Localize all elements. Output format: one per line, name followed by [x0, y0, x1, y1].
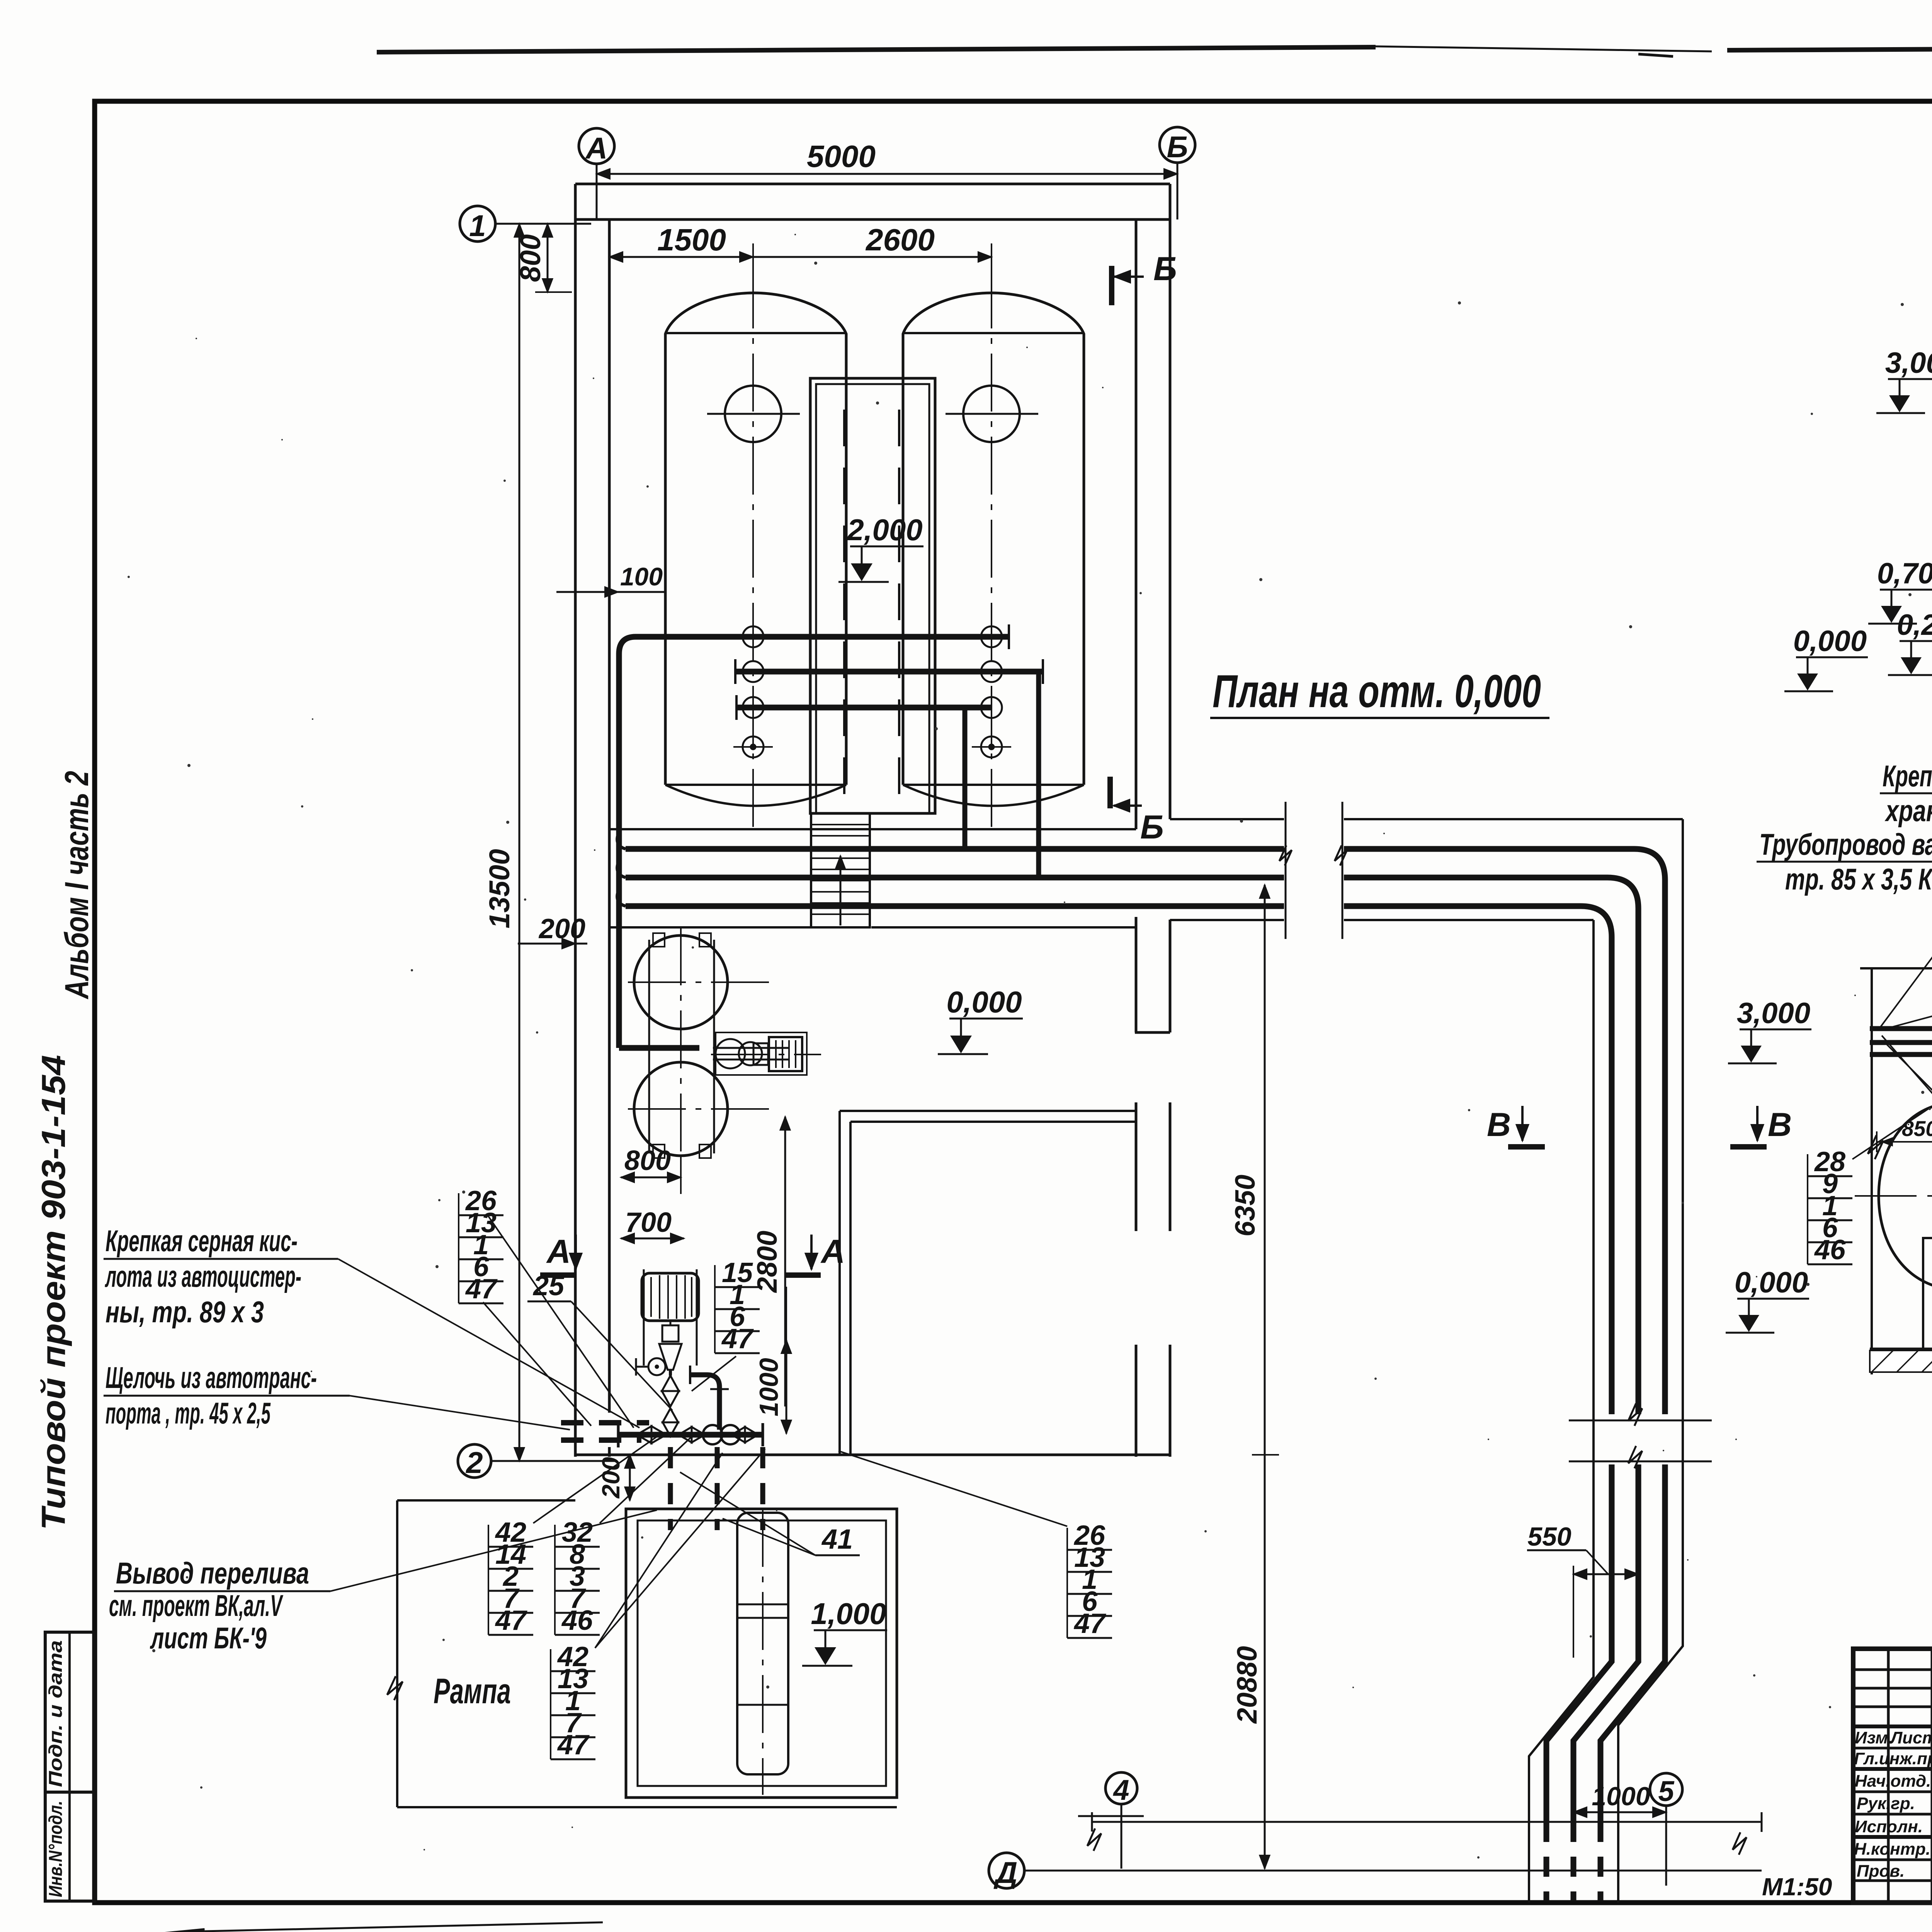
svg-text:2800: 2800 [752, 1231, 783, 1293]
mernik valve actuator [662, 1325, 679, 1342]
svg-text:А: А [820, 1233, 845, 1270]
horizontal tank body [1879, 1105, 1932, 1286]
grid circle B [1160, 127, 1195, 163]
corridor pipe 2 (middle) [626, 875, 1284, 881]
scan top edge line [377, 47, 1376, 52]
interior room wall top double [840, 1110, 1136, 1112]
svg-text:47: 47 [721, 1323, 754, 1354]
tank 2 bottom [903, 784, 1084, 786]
middle pit inner [816, 384, 929, 813]
scan bottom-left streak [37, 1931, 205, 1932]
svg-text:0,000: 0,000 [946, 985, 1022, 1019]
truck centerline [762, 1509, 764, 1795]
elevation mark BB 0.000 left [1726, 1266, 1809, 1333]
tank 2 centerline [991, 270, 992, 829]
truck compartment lines [737, 1604, 788, 1605]
dissolver centerline vertical [680, 927, 682, 1163]
label vacuum pipe [1759, 827, 1932, 896]
dim 6350 and 20880 [1264, 885, 1266, 1869]
dim 550 [1573, 1573, 1638, 1575]
corridor pipe 1 (top) [626, 846, 1284, 852]
svg-text:В: В [1768, 1106, 1792, 1143]
pump centerline [711, 1054, 821, 1055]
motor coupling [753, 1043, 768, 1065]
svg-text:20880: 20880 [1232, 1646, 1263, 1724]
svg-text:700: 700 [625, 1207, 672, 1238]
svg-text:200: 200 [538, 913, 585, 944]
outside duct upper boundary [1170, 818, 1284, 820]
svg-text:А: А [585, 131, 607, 165]
tank 1 centerline [752, 270, 754, 829]
dim 2600 [753, 256, 992, 258]
svg-text:Пров.: Пров. [1857, 1862, 1905, 1881]
corridor pipe 3 (bottom) [626, 903, 1284, 909]
column lines [1887, 1649, 1890, 1903]
tank top pipe 3 [736, 705, 992, 711]
svg-text:Б: Б [1153, 250, 1177, 287]
ramp platform bottom edge [397, 1806, 897, 1808]
svg-text:46: 46 [561, 1605, 593, 1636]
callout stack 42-13-1-7-47 [551, 1641, 595, 1760]
ramp pit inner [638, 1520, 886, 1786]
svg-text:Д: Д [993, 1855, 1017, 1889]
elevation mark BB 3.000 left [1728, 997, 1811, 1063]
svg-text:1000: 1000 [754, 1358, 784, 1416]
duct right boundary vertical with offset [1618, 819, 1683, 1903]
dim 5000 [597, 173, 1177, 175]
main unloading manifold [618, 1432, 763, 1438]
section box left [1871, 968, 1873, 1374]
outside duct lower boundary [1170, 919, 1284, 921]
ground line [1870, 1348, 1932, 1350]
pipe corridor wall lower [609, 926, 810, 929]
dissolver centerline horizontal 2 [628, 1108, 769, 1110]
dim 1500 [609, 256, 753, 258]
svg-text:47: 47 [557, 1730, 590, 1760]
pipe end hooks at left [617, 835, 626, 849]
svg-text:Альбом I часть 2: Альбом I часть 2 [58, 771, 95, 1000]
svg-text:Гл.инж.пр: Гл.инж.пр [1854, 1749, 1932, 1768]
grid circle 2 [458, 1444, 491, 1478]
svg-text:5000: 5000 [807, 139, 876, 173]
manifold valves [637, 1426, 666, 1443]
svg-text:0,000: 0,000 [1735, 1266, 1808, 1299]
vertical run break marks [1569, 1420, 1712, 1422]
stair treads [811, 825, 870, 914]
ramp pit outer [626, 1509, 897, 1798]
tank 2 manhole [963, 386, 1020, 442]
svg-text:см. проект ВК,ал.V: см. проект ВК,ал.V [109, 1588, 284, 1622]
elevation mark AA 3.000 [1876, 347, 1932, 413]
svg-text:лота из автоцистер-: лота из автоцистер- [105, 1259, 301, 1293]
electric motor [769, 1037, 802, 1071]
middle pit outer [810, 378, 935, 813]
salt dissolver tank circle 2 [634, 1062, 728, 1156]
mernik support frame [643, 1269, 645, 1366]
vertical valve pair on mernik drop [662, 1376, 679, 1406]
dissolver centerline horizontal 1 [628, 981, 769, 983]
pipe 2 drop to corridor [1036, 672, 1041, 878]
svg-text:Типовой проект 903-1-154: Типовой проект 903-1-154 [35, 1055, 72, 1530]
grid circle 4 [1105, 1772, 1137, 1804]
label alkali from transport [105, 1361, 317, 1430]
building left wall inner [608, 219, 611, 1413]
elevation mark AA 0.000 [1784, 625, 1868, 691]
dissolver skid frame [648, 940, 650, 1153]
svg-text:Крепкая щелочь в мерники: Крепкая щелочь в мерники [1883, 759, 1932, 793]
tank 1 bottom [665, 784, 846, 786]
tank truck outline [737, 1513, 788, 1774]
svg-text:850: 850 [1902, 1116, 1932, 1141]
svg-text:2600: 2600 [865, 223, 935, 257]
grid line D [1024, 1870, 1762, 1872]
stairs up arrow [840, 856, 842, 925]
pit hidden line 1 [843, 410, 845, 813]
svg-text:Б: Б [1140, 809, 1164, 846]
callout stack 15-7-6-47 mernik [715, 1257, 760, 1354]
svg-text:2,000: 2,000 [846, 513, 922, 547]
dim 700 [621, 1238, 684, 1240]
header row labels [1854, 1728, 1932, 1881]
svg-text:2: 2 [465, 1446, 483, 1480]
callout stack 26-13-1-6-47 right [1067, 1520, 1112, 1639]
dashed drops to ramp pit 2 [715, 1447, 720, 1530]
callout stack 42-14-2-7-47 [488, 1517, 533, 1636]
metering tank (mernik) [642, 1273, 699, 1321]
nozzle flanges with dots [733, 736, 1011, 757]
incoming dashed acid pipe [561, 1420, 649, 1425]
stairs outline [811, 813, 870, 927]
pump feed elbow [619, 1045, 699, 1051]
svg-text:0,000: 0,000 [1793, 625, 1867, 658]
storage tank 1 outline [665, 293, 846, 785]
svg-text:Исполн.: Исполн. [1855, 1817, 1923, 1836]
grid circle D [989, 1853, 1024, 1888]
pipe corridor wall upper [609, 828, 1136, 830]
BB leader lines [1852, 1001, 1932, 1252]
building bottom wall [575, 1454, 1170, 1456]
storage tank 2 outline [903, 293, 1084, 785]
support pedestal 1 [1923, 1238, 1932, 1349]
svg-text:Щелочь из автотранс-: Щелочь из автотранс- [105, 1361, 317, 1395]
svg-text:25: 25 [532, 1270, 565, 1301]
svg-text:В: В [1487, 1106, 1511, 1143]
thick elbow pipe from manifold up [690, 1375, 719, 1430]
svg-text:5: 5 [1658, 1775, 1675, 1807]
incoming dashed alkali pipe [561, 1437, 641, 1443]
tank 1 manhole [725, 386, 781, 442]
label strong sulfuric acid from truck [105, 1224, 301, 1329]
svg-text:47: 47 [1073, 1608, 1106, 1639]
svg-text:800: 800 [624, 1145, 671, 1176]
svg-text:Инв.N°подл.: Инв.N°подл. [46, 1801, 66, 1897]
building top wall outer [575, 183, 1170, 185]
tank top pipe 1 with elbow to riser [619, 637, 1009, 1048]
ramp platform left edge [397, 1499, 575, 1502]
svg-text:Трубопровод вакуума: Трубопровод вакуума [1759, 827, 1932, 861]
dim 1000 mernik [786, 1340, 787, 1434]
svg-text:тр. 85 х 3,5 К: тр. 85 х 3,5 К [1785, 862, 1932, 896]
pipe 3 drop to corridor [963, 707, 968, 849]
svg-text:0,200: 0,200 [1897, 609, 1932, 641]
svg-text:0,700: 0,700 [1877, 557, 1932, 590]
svg-text:46: 46 [1814, 1235, 1846, 1265]
svg-text:М1:50: М1:50 [1762, 1873, 1832, 1901]
svg-text:3,000: 3,000 [1737, 997, 1810, 1030]
svg-text:порта , тр. 45 х 2,5: порта , тр. 45 х 2,5 [105, 1396, 271, 1430]
leader lines [483, 1214, 1067, 1648]
bottom-left stamp boxes [45, 1632, 95, 1901]
svg-text:550: 550 [1527, 1522, 1571, 1551]
svg-text:47: 47 [495, 1605, 527, 1636]
svg-text:13500: 13500 [483, 849, 515, 929]
elevation mark 0.000 plan [938, 985, 1023, 1054]
pit hidden line 2 [898, 410, 900, 813]
svg-text:хранения , тр. 45 х 2,5: хранения , тр. 45 х 2,5 [1884, 794, 1932, 828]
svg-text:4: 4 [1112, 1774, 1129, 1806]
svg-text:лист БК-'9: лист БК-'9 [150, 1621, 267, 1655]
svg-text:1500: 1500 [657, 223, 726, 257]
dim 800 top [547, 224, 549, 292]
row lines [1853, 1668, 1932, 1671]
svg-text:Рампа: Рампа [434, 1672, 511, 1711]
svg-text:Б: Б [1167, 130, 1188, 164]
elevation mark 2.000 pit [838, 513, 923, 582]
dashed drops to ramp pit 1 [668, 1447, 673, 1530]
interior room wall left double [838, 1111, 841, 1455]
title block outer [1853, 1649, 1932, 1903]
grid circle A [579, 128, 614, 164]
svg-text:А: А [546, 1233, 571, 1270]
svg-text:1: 1 [469, 209, 486, 243]
svg-text:Нач.отд.: Нач.отд. [1855, 1772, 1931, 1791]
svg-text:100: 100 [620, 562, 663, 591]
callout stack 32-8-3-7-46 [555, 1517, 600, 1636]
svg-text:6350: 6350 [1230, 1175, 1261, 1236]
funnel below mernik [659, 1344, 682, 1370]
dim 13500 [519, 224, 520, 1461]
svg-text:3,000: 3,000 [1885, 347, 1932, 379]
dim 1000 bottom [1573, 1811, 1666, 1813]
callout stack 26-13-1-6-47 left [459, 1185, 503, 1304]
dashed drops to ramp pit 3 [760, 1447, 765, 1530]
salt dissolver tank circle 1 [634, 935, 728, 1029]
svg-text:Подп. и дата: Подп. и дата [46, 1640, 66, 1787]
svg-text:Изм.: Изм. [1855, 1728, 1893, 1747]
svg-text:1,000: 1,000 [811, 1597, 886, 1631]
elevation mark AA 0.700 [1868, 557, 1932, 624]
tank centerline [1855, 1195, 1932, 1197]
grid circle 1 [460, 206, 495, 241]
ground hatch [1870, 1350, 1932, 1372]
elevation mark AA 0.200 [1888, 609, 1932, 675]
svg-text:Лист: Лист [1889, 1728, 1932, 1747]
building left wall outer [574, 184, 577, 1457]
svg-text:1000: 1000 [1592, 1782, 1650, 1811]
dim 200 ramp [629, 1455, 631, 1500]
flange circles on pipes [743, 623, 1002, 718]
label strong alkali to merniki [1883, 759, 1932, 828]
grid circle 5 [1650, 1773, 1682, 1806]
svg-text:47: 47 [465, 1274, 498, 1304]
manifold flange circles [703, 1425, 722, 1444]
pump unit base frame [716, 1032, 807, 1075]
pump body [716, 1039, 745, 1068]
top pipes [1870, 1026, 1932, 1031]
svg-text:ны, тр. 89 х 3: ны, тр. 89 х 3 [105, 1295, 264, 1329]
dim 2800 [784, 1117, 786, 1406]
tank break marks [1868, 1135, 1883, 1159]
duct left boundary vertical with offset [1529, 920, 1594, 1903]
dim 800 bottom [621, 1177, 681, 1179]
svg-text:Вывод перелива: Вывод перелива [116, 1556, 309, 1590]
svg-text:200: 200 [597, 1457, 625, 1499]
pump suction pipe double line [713, 1047, 788, 1049]
tank top pipe 2 [735, 669, 1043, 675]
building right wall inner segments [1135, 219, 1138, 829]
elevation mark 1.000 ramp [802, 1597, 887, 1666]
label overflow outlet [109, 1556, 309, 1655]
building right wall outer segments [1169, 184, 1172, 819]
svg-text:Рук.гр.: Рук.гр. [1857, 1794, 1915, 1813]
svg-text:Крепкая серная кис-: Крепкая серная кис- [105, 1224, 298, 1258]
svg-text:План на отм. 0,000: План на отм. 0,000 [1213, 665, 1541, 717]
svg-text:41: 41 [821, 1524, 853, 1555]
building top wall inner [575, 218, 1170, 221]
section box top [1860, 967, 1932, 969]
dim line 850/400/400/400 [1877, 1141, 1932, 1143]
duct break ticks [1285, 802, 1287, 939]
callout BB left 28-9-1-6-46 [1808, 1146, 1852, 1265]
tank 1 shoulder line [665, 332, 846, 334]
small transfer pump [648, 1358, 665, 1375]
svg-text:Н.контр.: Н.контр. [1854, 1840, 1930, 1859]
tank 2 shoulder line [903, 332, 1084, 334]
road edge line [1092, 1821, 1762, 1823]
